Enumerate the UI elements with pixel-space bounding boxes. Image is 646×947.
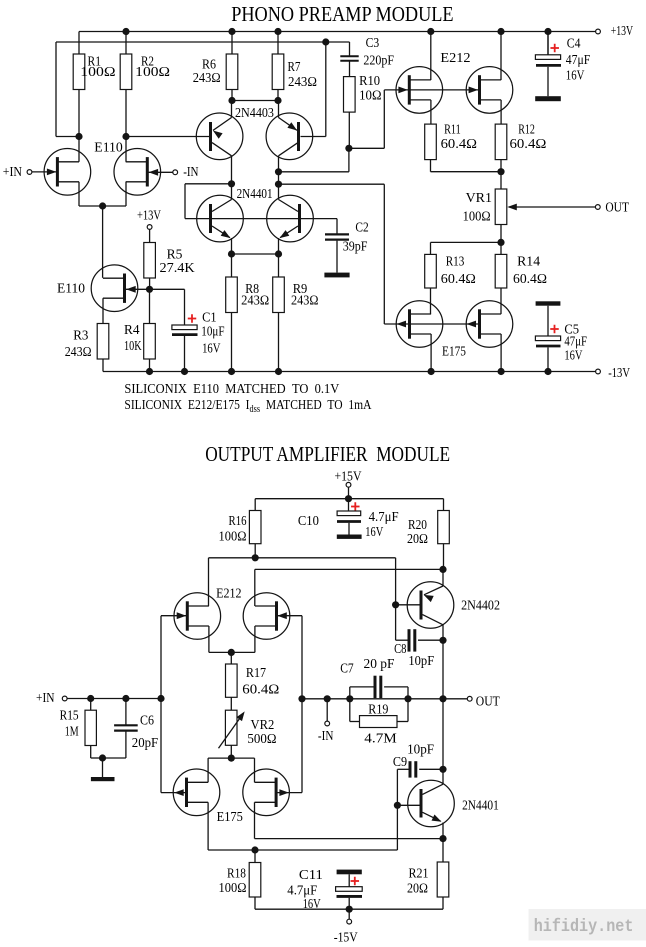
svg-text:R20: R20 xyxy=(408,518,427,533)
svg-text:1M: 1M xyxy=(65,725,79,740)
svg-text:R3: R3 xyxy=(73,329,88,344)
svg-text:+13V: +13V xyxy=(611,24,633,39)
svg-text:R4: R4 xyxy=(124,323,140,338)
svg-text:20Ω: 20Ω xyxy=(407,532,428,547)
svg-text:R13: R13 xyxy=(446,255,465,270)
svg-text:100Ω: 100Ω xyxy=(219,881,247,896)
svg-text:100Ω: 100Ω xyxy=(219,530,247,545)
svg-text:VR1: VR1 xyxy=(466,191,492,206)
svg-text:E175: E175 xyxy=(217,810,243,825)
svg-text:C1: C1 xyxy=(202,311,217,326)
svg-text:243Ω: 243Ω xyxy=(193,71,221,86)
svg-text:+15V: +15V xyxy=(335,469,362,484)
svg-text:243Ω: 243Ω xyxy=(241,294,269,309)
svg-text:+13V: +13V xyxy=(137,208,161,223)
svg-text:2N4401: 2N4401 xyxy=(237,187,273,202)
svg-text:2N4401: 2N4401 xyxy=(462,799,499,814)
svg-text:hifidiy.net: hifidiy.net xyxy=(534,917,634,937)
svg-text:20 pF: 20 pF xyxy=(364,657,395,672)
svg-text:10pF: 10pF xyxy=(408,654,434,669)
svg-text:E175: E175 xyxy=(442,345,466,360)
svg-text:OUTPUT AMPLIFIER MODULE: OUTPUT AMPLIFIER MODULE xyxy=(205,442,450,466)
svg-text:60.4Ω: 60.4Ω xyxy=(513,272,547,287)
svg-text:27.4K: 27.4K xyxy=(160,261,195,276)
svg-text:-15V: -15V xyxy=(334,930,358,945)
svg-text:60.4Ω: 60.4Ω xyxy=(510,137,547,152)
svg-text:C9: C9 xyxy=(393,755,407,770)
svg-text:60.4Ω: 60.4Ω xyxy=(441,272,476,287)
svg-text:4.7M: 4.7M xyxy=(364,731,397,746)
svg-text:E110: E110 xyxy=(57,282,85,297)
svg-text:60.4Ω: 60.4Ω xyxy=(441,137,477,152)
svg-text:10pF: 10pF xyxy=(407,743,434,758)
svg-text:R18: R18 xyxy=(227,867,246,882)
svg-text:+IN: +IN xyxy=(36,691,55,706)
svg-text:E110: E110 xyxy=(94,140,123,155)
svg-text:220pF: 220pF xyxy=(363,53,394,68)
svg-text:C3: C3 xyxy=(366,36,380,51)
svg-text:100Ω: 100Ω xyxy=(80,65,115,80)
svg-text:R12: R12 xyxy=(518,122,535,137)
svg-text:E212: E212 xyxy=(216,587,241,602)
svg-text:C6: C6 xyxy=(140,713,154,728)
svg-text:R19: R19 xyxy=(368,703,388,718)
svg-text:16V: 16V xyxy=(202,341,220,356)
svg-text:243Ω: 243Ω xyxy=(288,75,317,90)
svg-text:SILICONIX E212/E175 Idss MA: SILICONIX E212/E175 Idss MATCHED TO 1mA xyxy=(124,398,372,415)
svg-text:R10: R10 xyxy=(359,74,380,89)
svg-text:C11: C11 xyxy=(299,868,323,883)
svg-text:C4: C4 xyxy=(567,36,581,51)
svg-text:R21: R21 xyxy=(409,867,429,882)
svg-text:20Ω: 20Ω xyxy=(407,882,428,897)
svg-text:10μF: 10μF xyxy=(201,325,224,340)
svg-text:47μF: 47μF xyxy=(564,334,587,349)
svg-text:500Ω: 500Ω xyxy=(247,732,276,747)
svg-text:C10: C10 xyxy=(298,514,319,529)
svg-text:C2: C2 xyxy=(355,221,368,236)
svg-text:47μF: 47μF xyxy=(566,53,591,68)
svg-text:R17: R17 xyxy=(246,666,266,681)
svg-text:PHONO PREAMP MODULE: PHONO PREAMP MODULE xyxy=(231,2,453,26)
svg-text:100Ω: 100Ω xyxy=(463,209,491,224)
svg-text:2N4403: 2N4403 xyxy=(235,106,274,121)
svg-text:VR2: VR2 xyxy=(251,718,275,733)
svg-text:4.7μF: 4.7μF xyxy=(369,510,399,525)
svg-text:16V: 16V xyxy=(566,69,585,84)
svg-text:16V: 16V xyxy=(303,897,321,912)
svg-text:R16: R16 xyxy=(229,514,247,529)
svg-text:16V: 16V xyxy=(365,525,383,540)
svg-text:39pF: 39pF xyxy=(343,239,368,254)
svg-text:R11: R11 xyxy=(444,122,461,137)
svg-text:R14: R14 xyxy=(517,255,540,270)
svg-text:+IN: +IN xyxy=(3,165,22,180)
svg-text:-13V: -13V xyxy=(608,366,630,381)
svg-text:-IN: -IN xyxy=(318,729,334,744)
svg-text:100Ω: 100Ω xyxy=(135,65,170,80)
svg-text:-IN: -IN xyxy=(183,165,198,180)
svg-text:16V: 16V xyxy=(564,349,582,364)
svg-text:SILICONIX E110 MATCHED TO: SILICONIX E110 MATCHED TO 0.1V xyxy=(124,382,339,397)
svg-text:10K: 10K xyxy=(124,339,142,354)
svg-text:60.4Ω: 60.4Ω xyxy=(242,683,279,698)
svg-text:2N4402: 2N4402 xyxy=(461,599,500,614)
svg-text:20pF: 20pF xyxy=(132,736,159,751)
svg-text:OUT: OUT xyxy=(476,694,500,709)
svg-text:OUT: OUT xyxy=(605,201,629,216)
svg-text:R7: R7 xyxy=(288,60,301,75)
svg-text:C7: C7 xyxy=(340,662,354,677)
svg-text:243Ω: 243Ω xyxy=(65,345,92,360)
svg-text:C8: C8 xyxy=(394,642,406,657)
svg-text:10Ω: 10Ω xyxy=(359,89,381,104)
svg-text:243Ω: 243Ω xyxy=(291,294,319,309)
svg-text:R15: R15 xyxy=(60,708,79,723)
svg-text:E212: E212 xyxy=(440,51,470,66)
